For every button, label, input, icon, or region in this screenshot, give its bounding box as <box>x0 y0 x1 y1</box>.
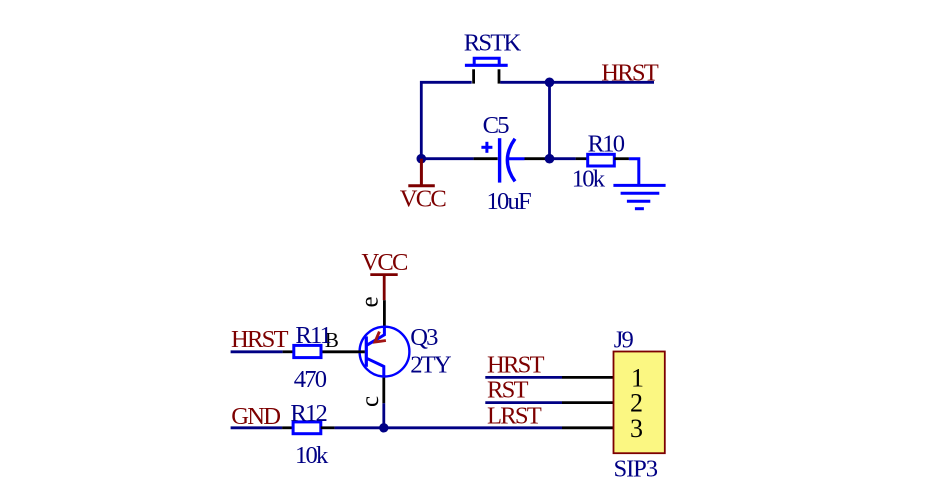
wire collector pin <box>382 378 385 404</box>
svg-text:SIP3: SIP3 <box>614 456 658 483</box>
node junction bottom <box>379 423 388 432</box>
node junction top <box>545 78 555 88</box>
svg-text:10k: 10k <box>572 165 606 192</box>
wire GND to R12 <box>231 426 283 429</box>
svg-text:HRST: HRST <box>231 326 288 353</box>
wire top-right to HRST <box>500 81 654 84</box>
svg-text:10uF: 10uF <box>487 188 531 215</box>
svg-text:10k: 10k <box>295 442 329 469</box>
svg-text:RST: RST <box>487 376 528 403</box>
svg-text:VCC: VCC <box>400 186 447 213</box>
svg-text:3: 3 <box>630 414 643 443</box>
svg-text:HRST: HRST <box>601 59 658 86</box>
power VCC bottom <box>361 249 408 300</box>
wire HRST to pin1 <box>485 376 562 379</box>
transistor Q3 <box>360 324 452 379</box>
resistor R10 <box>572 130 629 192</box>
svg-text:C5: C5 <box>483 112 510 139</box>
svg-text:GND: GND <box>231 403 280 430</box>
power VCC top <box>400 159 447 213</box>
svg-text:HRST: HRST <box>487 352 544 379</box>
capacitor C5 <box>474 112 550 215</box>
svg-text:2TY: 2TY <box>410 351 452 378</box>
svg-text:LRST: LRST <box>487 402 542 429</box>
wire middle vertical <box>548 82 551 158</box>
svg-text:J9: J9 <box>614 327 634 354</box>
wire LRST pin3 lead <box>562 426 614 429</box>
node junction bottom-mid <box>545 154 555 164</box>
ground <box>613 159 665 209</box>
svg-text:e: e <box>356 296 383 307</box>
node junction bottom-left <box>417 154 427 164</box>
svg-text:R12: R12 <box>290 400 326 427</box>
resistor R11 <box>283 322 331 393</box>
wire to R10 <box>550 157 576 160</box>
svg-text:470: 470 <box>294 366 327 393</box>
wire bottom-left segment <box>421 157 473 160</box>
switch RSTK <box>465 58 508 83</box>
wire collector to junction <box>382 403 385 428</box>
wire emitter pin <box>383 300 386 328</box>
connector J9 <box>614 327 665 483</box>
svg-text:R10: R10 <box>588 130 625 157</box>
wire LRST run <box>335 426 562 429</box>
svg-text:RSTK: RSTK <box>464 30 522 57</box>
resistor R12 <box>282 400 335 469</box>
svg-text:Q3: Q3 <box>410 324 438 351</box>
wire base pin <box>321 350 365 353</box>
svg-text:VCC: VCC <box>361 249 408 276</box>
svg-text:R11: R11 <box>295 322 330 349</box>
wire top-left corner <box>421 82 471 158</box>
wire RST to pin2 <box>485 401 562 404</box>
svg-text:c: c <box>357 396 384 407</box>
wire HRST to R11 <box>231 350 283 353</box>
